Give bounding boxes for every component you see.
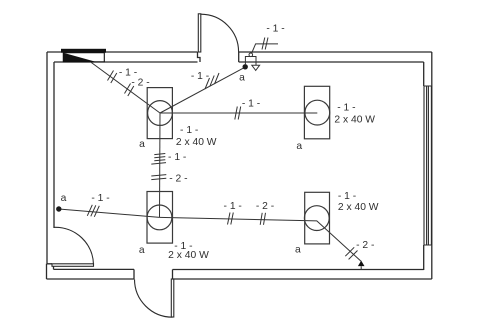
svg-text:- 1 -: - 1 - (242, 98, 260, 109)
svg-text:- 1 -: - 1 - (180, 125, 198, 136)
svg-text:- 1 -: - 1 - (338, 191, 356, 202)
svg-text:2 x 40 W: 2 x 40 W (334, 114, 375, 125)
svg-text:- 1 -: - 1 - (191, 71, 209, 82)
svg-text:a: a (61, 193, 67, 204)
svg-text:- 2 -: - 2 - (256, 201, 274, 212)
svg-text:a: a (296, 141, 302, 152)
svg-text:- 2 -: - 2 - (356, 240, 374, 251)
svg-text:- 1 -: - 1 - (91, 193, 109, 204)
svg-text:a: a (139, 245, 145, 256)
svg-text:- 1 -: - 1 - (168, 152, 186, 163)
svg-text:a: a (239, 73, 245, 84)
svg-text:a: a (295, 244, 301, 255)
svg-text:- 1 -: - 1 - (337, 103, 355, 114)
svg-text:2 x 40 W: 2 x 40 W (338, 202, 379, 213)
svg-text:- 2 -: - 2 - (169, 173, 187, 184)
svg-text:- 2 -: - 2 - (131, 77, 149, 88)
svg-text:- 1 -: - 1 - (224, 201, 242, 212)
svg-text:a: a (139, 139, 145, 150)
svg-text:2 x 40 W: 2 x 40 W (176, 137, 217, 148)
svg-text:- 1 -: - 1 - (266, 24, 284, 35)
svg-text:2 x 40 W: 2 x 40 W (168, 250, 209, 261)
